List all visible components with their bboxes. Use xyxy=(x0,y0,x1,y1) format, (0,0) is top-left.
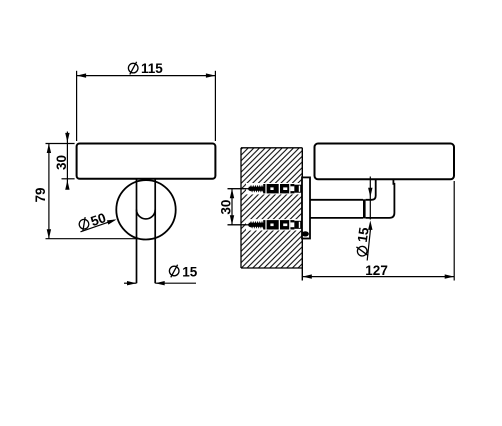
svg-text:30: 30 xyxy=(54,155,69,170)
svg-text:15: 15 xyxy=(182,264,198,279)
svg-text:127: 127 xyxy=(365,263,388,278)
svg-text:15: 15 xyxy=(355,226,372,243)
svg-text:30: 30 xyxy=(218,200,233,215)
svg-text:79: 79 xyxy=(33,187,48,202)
svg-text:115: 115 xyxy=(141,61,163,76)
svg-text:50: 50 xyxy=(89,210,108,229)
